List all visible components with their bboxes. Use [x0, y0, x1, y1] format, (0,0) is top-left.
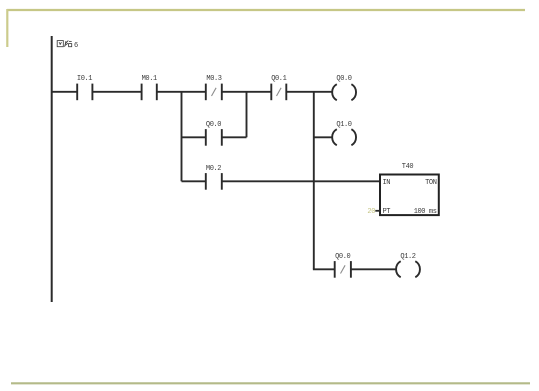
wire Q0.0 contact to junction B — [222, 136, 247, 138]
wire M0.1 through junction A to M0.3 — [157, 91, 206, 93]
vertical branch B — [246, 91, 248, 137]
PT preset value 20 — [367, 208, 380, 216]
wire A to M0.2 contact — [182, 180, 206, 182]
svg-text:T40: T40 — [402, 163, 414, 171]
svg-text:Q1.2: Q1.2 — [400, 253, 415, 261]
contact M0.2 — [206, 165, 222, 190]
svg-text:Q0.1: Q0.1 — [271, 75, 286, 83]
wire M0.2 to timer IN — [222, 180, 380, 182]
contact M0.3 (NC) — [206, 75, 222, 100]
vertical branch A — [181, 91, 183, 181]
svg-text:IN: IN — [383, 179, 391, 187]
svg-text:PT: PT — [383, 208, 391, 216]
coil Q0.0 — [332, 75, 356, 100]
coil Q1.2 — [396, 253, 420, 277]
wire I0.1 to M0.1 — [92, 91, 141, 93]
frame bottom border — [11, 382, 530, 384]
wire M0.3 through junction B to Q0.1 — [222, 91, 271, 93]
svg-text:Q0.0: Q0.0 — [206, 121, 221, 129]
svg-text:M0.2: M0.2 — [206, 165, 221, 173]
network label 网络 6 — [57, 41, 78, 50]
contact I0.1 — [77, 75, 93, 100]
timer T40 box — [380, 163, 439, 216]
svg-text:M0.3: M0.3 — [206, 75, 221, 83]
main vertical bus — [313, 91, 315, 269]
svg-text:Q0.0: Q0.0 — [336, 75, 351, 83]
wire to coil Q1.2 — [351, 268, 397, 270]
contact Q0.0 — [206, 121, 222, 146]
svg-text:6: 6 — [74, 42, 78, 50]
svg-text:100 ms: 100 ms — [414, 208, 437, 216]
wire bus corner to Q0.0 bottom contact — [314, 267, 335, 270]
contact Q0.0 (NC, bottom rung) — [335, 253, 351, 278]
left power rail — [51, 36, 53, 302]
frame top border — [7, 9, 525, 11]
svg-text:TON: TON — [425, 179, 437, 187]
wire rail to I0.1 — [51, 91, 77, 93]
contact M0.1 — [142, 75, 157, 100]
svg-text:Q0.0: Q0.0 — [335, 253, 350, 261]
wire Q0.1 to coil Q0.0 — [286, 91, 333, 93]
svg-text:M0.1: M0.1 — [142, 75, 157, 83]
wire bus to coil Q1.0 — [314, 136, 333, 138]
wire A to Q0.0 contact — [182, 136, 206, 138]
svg-text:20: 20 — [367, 208, 375, 216]
svg-text:I0.1: I0.1 — [77, 75, 92, 83]
svg-text:Q1.0: Q1.0 — [336, 121, 351, 129]
contact Q0.1 (NC) — [271, 75, 286, 100]
frame left border — [6, 9, 8, 47]
coil Q1.0 — [332, 121, 356, 145]
